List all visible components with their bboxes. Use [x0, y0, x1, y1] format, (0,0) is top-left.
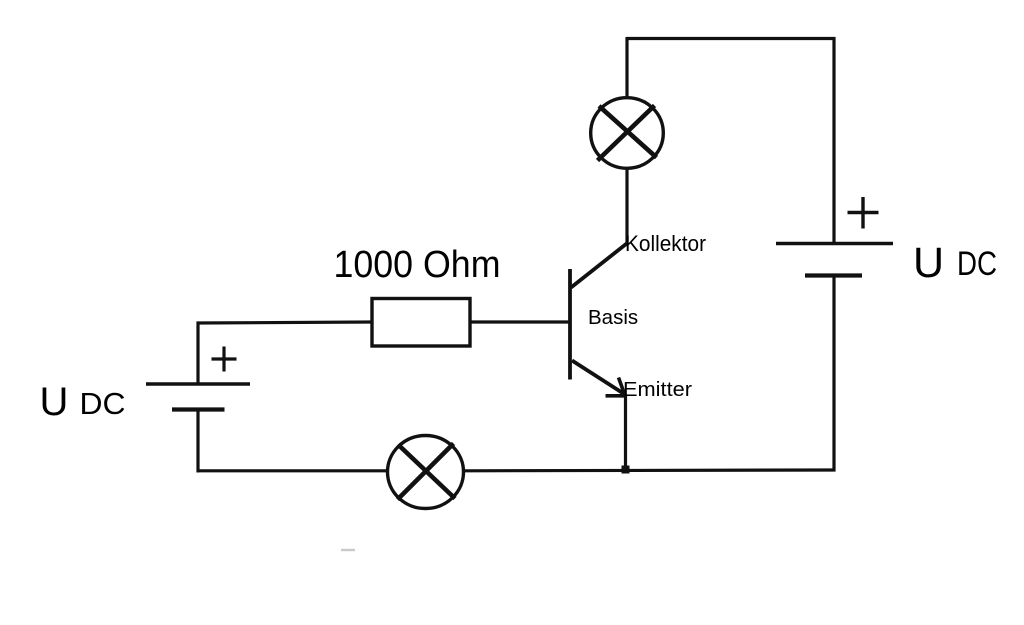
svg-text:DC: DC	[957, 245, 997, 283]
svg-text:1000 Ohm: 1000 Ohm	[334, 244, 501, 286]
transistor Q1: collector diagonal	[571, 243, 628, 288]
svg-text:Kollektor: Kollektor	[625, 231, 706, 256]
transistor Q1: emitter diagonal	[572, 361, 625, 395]
battery B1 (left U DC): long + plate	[146, 382, 250, 385]
svg-text:Emitter: Emitter	[623, 378, 692, 401]
svg-text:DC: DC	[80, 386, 126, 421]
wire right vertical lower (battery - to bottom)	[832, 276, 835, 472]
svg-text:U: U	[40, 380, 69, 424]
transistor Q1: emitter arrow barb vertical	[619, 378, 626, 396]
svg-text:Basis: Basis	[588, 306, 638, 329]
battery B2: short - plate	[805, 273, 862, 277]
lamp E1 (top)	[591, 98, 664, 169]
battery B2 (right U DC): long + plate	[776, 242, 893, 245]
wire base feed right (resistor R1 to transistor base)	[470, 320, 570, 323]
wire left riser lower (battery - down to bottom wire)	[196, 409, 199, 472]
wire collector vertical (lamp E1 to transistor)	[625, 170, 628, 245]
label "U DC" (left source)	[40, 380, 126, 424]
resistor R1 body	[372, 299, 470, 347]
plus sign (battery B2)	[848, 197, 879, 229]
wire lamp E1 top feed	[625, 37, 628, 97]
transistor Q1: base bar	[568, 269, 572, 380]
wire top horizontal	[627, 37, 836, 40]
wire emitter vertical (transistor to bottom wire)	[624, 394, 627, 471]
battery B1: short - plate	[172, 407, 225, 411]
svg-text:U: U	[913, 239, 944, 287]
wire bottom left (lamp E2 to left riser)	[197, 469, 388, 472]
lamp E2 (bottom)	[388, 436, 464, 509]
wire bottom right (corner to lamp E2)	[465, 468, 836, 472]
wire right vertical upper (to battery + plate)	[832, 37, 835, 244]
junction node (emitter / bottom wire)	[622, 466, 630, 474]
transistor Q1: emitter arrow barb horizontal	[606, 394, 626, 398]
wire base feed left (riser to resistor R1)	[197, 322, 373, 323]
label "U DC" (right source)	[913, 239, 997, 287]
wire left riser upper (battery + up to base wire)	[196, 322, 199, 385]
artifact: faint gray dash	[341, 549, 355, 551]
plus sign (battery B1)	[212, 347, 237, 372]
